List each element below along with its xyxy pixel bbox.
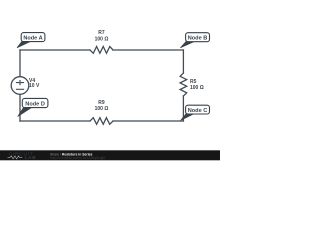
svg-text:100 Ω: 100 Ω <box>95 36 109 42</box>
node B flag box <box>186 33 210 42</box>
node D flag box <box>22 98 48 107</box>
watermark logo zigzag <box>8 156 23 159</box>
voltage source V4 minus sign <box>16 88 24 90</box>
wire top horizontal left segment <box>20 49 90 51</box>
wire right vertical upper segment <box>182 50 184 73</box>
wire bottom horizontal left segment <box>20 120 90 122</box>
node D flag tail <box>18 107 32 116</box>
svg-text:R7: R7 <box>98 30 105 36</box>
voltage source V4 circle <box>11 77 29 95</box>
voltage source V4 plus sign <box>16 80 24 85</box>
svg-text:100 Ω: 100 Ω <box>95 106 109 112</box>
wire right vertical lower segment <box>182 96 184 121</box>
svg-text:Node D: Node D <box>25 101 45 107</box>
svg-text:http://circuitlab.com/c/247345: http://circuitlab.com/c/247345q5zqy5 <box>50 156 105 160</box>
wire bottom horizontal right segment <box>113 120 183 122</box>
svg-text:Node A: Node A <box>23 35 42 41</box>
resistor R7 zigzag body <box>90 47 113 54</box>
svg-text:Node B: Node B <box>188 36 208 42</box>
wire left vertical lower segment <box>19 94 21 121</box>
node B flag tail <box>181 41 195 48</box>
svg-text:10 V: 10 V <box>29 83 40 89</box>
resistor R5 zigzag body <box>180 73 187 96</box>
node C flag tail <box>181 113 195 120</box>
wire top horizontal right segment <box>113 49 183 51</box>
watermark bar <box>0 150 220 160</box>
svg-text:Node C: Node C <box>188 108 208 114</box>
svg-text:LAB: LAB <box>25 155 37 160</box>
wire left vertical upper segment <box>19 50 21 77</box>
node C flag box <box>186 105 210 114</box>
node A flag tail <box>17 41 30 48</box>
svg-text:100 Ω: 100 Ω <box>190 85 204 91</box>
resistor R9 zigzag body <box>90 118 113 125</box>
node A flag box <box>21 33 45 42</box>
